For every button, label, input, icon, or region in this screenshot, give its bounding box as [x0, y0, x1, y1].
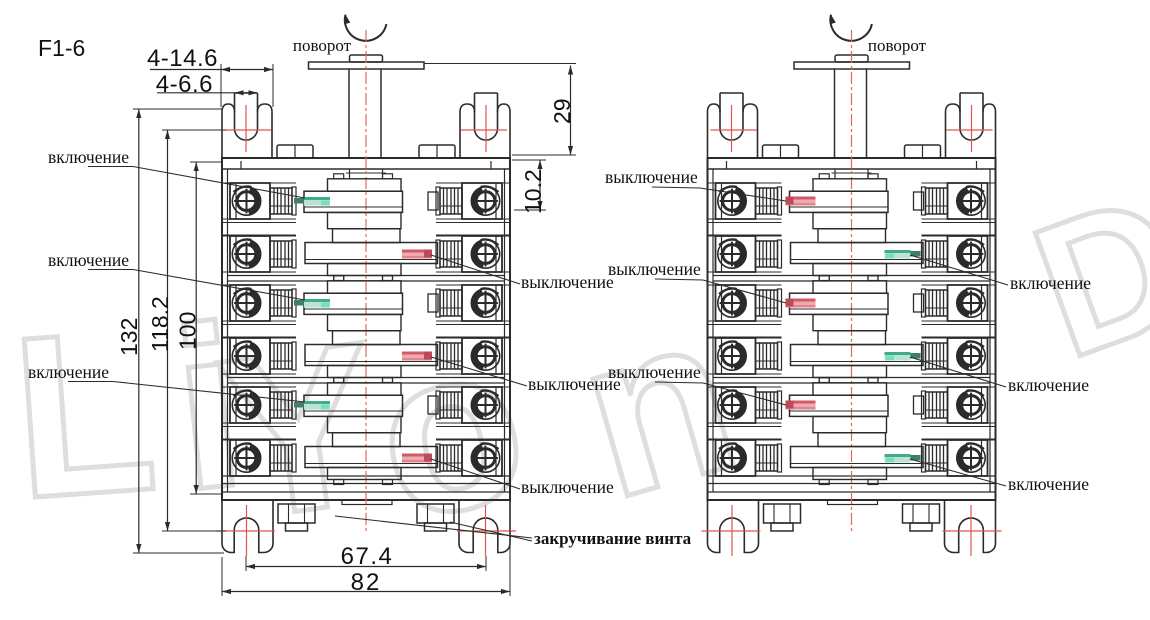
ear slot right — [497, 93, 499, 129]
contact stub row 1 — [914, 192, 924, 210]
svg-text:4-6.6: 4-6.6 — [156, 71, 213, 98]
red mark row 6 — [402, 454, 432, 463]
cam module 2 upper block — [328, 281, 402, 294]
body top plate line — [708, 168, 996, 170]
red mark row 4 — [402, 352, 432, 361]
fixed contact row y=254 R — [922, 240, 926, 268]
ear slot left — [234, 93, 236, 129]
cam module 2 upper block — [813, 281, 887, 294]
clamp row y=303 L — [270, 290, 292, 316]
handle plate — [794, 62, 910, 69]
cam module 3 lower block — [813, 468, 887, 480]
terminal block at xL row y=356 — [230, 338, 270, 374]
fixed contact row y=405 R — [922, 391, 926, 419]
contact stub row 5 — [914, 396, 924, 414]
green mark row 3 — [304, 299, 330, 308]
svg-text:включение: включение — [1010, 273, 1091, 293]
fixed contact row y=254 L — [778, 240, 782, 268]
dimension 118.2 — [167, 130, 169, 531]
contact bar row 6 — [305, 447, 438, 468]
ear crosshair left — [245, 105, 247, 152]
bottom screw boss right — [903, 504, 940, 523]
clamp row y=201 R — [926, 188, 948, 214]
clamp row y=201 L — [270, 188, 292, 214]
svg-text:включение: включение — [48, 147, 129, 167]
cam module 3 lower block — [328, 468, 402, 480]
pointer line vykliuchenie right-device 1 — [652, 187, 700, 188]
svg-text:29: 29 — [549, 98, 575, 124]
svg-text:включение: включение — [48, 250, 129, 270]
fixed contact row y=303 L — [778, 289, 782, 317]
cam module 1 upper block — [813, 179, 887, 192]
body top plate line — [222, 168, 510, 170]
contact stub row 5 — [428, 396, 438, 414]
red mark row 5 — [786, 401, 816, 410]
terminal block at xR row y=356 — [948, 338, 988, 374]
pointer line vykliuchenie left-device 1 — [431, 255, 520, 284]
contact bar row 3 — [790, 293, 889, 314]
fixed contact row y=405 L — [778, 391, 782, 419]
mounting foot right — [945, 500, 996, 553]
svg-text:F1-6: F1-6 — [38, 35, 85, 61]
cam module 2 lower block — [813, 366, 887, 378]
cam module 1 upper block — [328, 179, 402, 192]
contact bar row 6 — [791, 447, 924, 468]
svg-text:выключение: выключение — [608, 259, 701, 279]
cam module 3 middle blocks — [813, 417, 887, 433]
fixed contact row y=458 R — [436, 444, 440, 472]
bottom middle notch — [342, 500, 392, 505]
contact bar row 5 — [304, 395, 403, 416]
dimension 67.4 — [246, 566, 486, 568]
svg-text:4-14.6: 4-14.6 — [147, 45, 218, 72]
terminal block at xL row y=458 — [716, 440, 756, 476]
dimension 29 — [570, 66, 572, 156]
svg-text:118.2: 118.2 — [147, 296, 173, 352]
mounting foot left — [708, 500, 759, 553]
clamp row y=201 R — [440, 188, 462, 214]
contact stub row 1 — [428, 192, 438, 210]
terminal block at xR row y=458 — [462, 440, 502, 476]
terminal block at xL row y=303 — [230, 285, 270, 321]
green mark row 2 — [885, 250, 911, 259]
center line — [365, 30, 367, 534]
fixed contact row y=356 L — [778, 342, 782, 370]
fixed contact row y=458 L — [778, 444, 782, 472]
fixed contact row y=356 L — [292, 342, 296, 370]
clamp row y=254 R — [440, 241, 462, 267]
clamp row y=303 R — [926, 290, 948, 316]
terminal block at xR row y=254 — [462, 236, 502, 272]
clamp row y=405 R — [926, 392, 948, 418]
green mark row 4 — [885, 352, 911, 361]
rotation arc — [345, 15, 387, 41]
contact bar row 2 — [791, 243, 924, 264]
terminal block at xL row y=201 — [230, 183, 270, 219]
fixed contact row y=405 L — [292, 391, 296, 419]
clamp row y=356 R — [926, 343, 948, 369]
fixed contact row y=458 R — [922, 444, 926, 472]
clamp row y=405 R — [440, 392, 462, 418]
contact bar row 4 — [305, 345, 438, 366]
fixed contact row y=405 R — [436, 391, 440, 419]
svg-text:закручивание винта: закручивание винта — [534, 529, 692, 548]
shaft — [348, 69, 350, 158]
svg-text:включение: включение — [1008, 375, 1089, 395]
row gap shelf lines — [222, 222, 296, 224]
terminal block at xL row y=458 — [230, 440, 270, 476]
terminal block at xL row y=201 — [716, 183, 756, 219]
clamp row y=201 L — [756, 188, 778, 214]
fixed contact row y=254 L — [292, 240, 296, 268]
fixed contact row y=356 R — [436, 342, 440, 370]
svg-text:67.4: 67.4 — [341, 543, 394, 570]
pointer line vkliuchenie right-device 1 — [910, 255, 1008, 285]
clamp row y=254 R — [926, 241, 948, 267]
cam module 3 middle blocks — [328, 417, 402, 433]
green mark row 5 — [304, 401, 330, 410]
red mark row 3 — [786, 299, 816, 308]
mounting ear left — [222, 104, 235, 158]
pointer lines zakruchivanie vinta — [335, 516, 532, 538]
cam module 2 lower block — [328, 366, 402, 378]
red mark row 1 — [786, 197, 816, 206]
handle boss — [835, 55, 868, 62]
clamp row y=458 R — [926, 445, 948, 471]
clamp row y=458 R — [440, 445, 462, 471]
ear crosshair right — [485, 105, 487, 152]
svg-text:выключение: выключение — [608, 362, 701, 382]
foot crosshair right — [970, 505, 972, 556]
terminal block at xR row y=303 — [462, 285, 502, 321]
clamp row y=356 L — [756, 343, 778, 369]
fixed contact row y=303 L — [292, 289, 296, 317]
pointer line vkliuchenie right-device 2 — [910, 357, 1006, 387]
mounting ear right — [983, 104, 996, 158]
contact bar row 5 — [790, 395, 889, 416]
fixed contact row y=254 R — [436, 240, 440, 268]
clamp row y=356 L — [270, 343, 292, 369]
mounting ear right — [498, 104, 511, 158]
terminal block at xR row y=356 — [462, 338, 502, 374]
pointer line vykliuchenie left-device 3 — [431, 459, 520, 489]
svg-text:поворот: поворот — [868, 36, 927, 55]
svg-text:82: 82 — [351, 569, 382, 596]
svg-text:132: 132 — [116, 318, 142, 356]
body inner walls — [712, 169, 714, 492]
pointer line vykliuchenie left-device 2 — [431, 357, 527, 386]
top tab left — [763, 145, 799, 158]
terminal block at xR row y=254 — [948, 236, 988, 272]
foot crosshair left — [246, 505, 248, 556]
clamp row y=458 L — [756, 445, 778, 471]
fixed contact row y=201 L — [778, 187, 782, 215]
row gap shelf lines — [708, 222, 782, 224]
svg-text:100: 100 — [175, 312, 201, 350]
contact bar row 4 — [791, 345, 924, 366]
contact bar row 2 — [305, 243, 438, 264]
cam module 2 middle blocks — [328, 315, 402, 331]
body inner walls — [227, 169, 229, 492]
device body outline — [708, 158, 996, 500]
svg-text:10.2: 10.2 — [520, 169, 546, 214]
terminal block at xR row y=405 — [948, 387, 988, 423]
clamp row y=254 L — [756, 241, 778, 267]
bottom screw boss left — [764, 504, 801, 523]
bottom middle notch — [828, 500, 878, 505]
contact stub row 3 — [428, 294, 438, 312]
body module separation lines — [713, 275, 990, 277]
ear slot left — [719, 93, 721, 129]
terminal block at xL row y=356 — [716, 338, 756, 374]
green mark row 1 — [304, 197, 330, 206]
cam module 1 middle blocks — [813, 213, 887, 229]
clamp row y=303 R — [440, 290, 462, 316]
terminal block at xL row y=254 — [230, 236, 270, 272]
dimension 10.2 — [539, 160, 541, 210]
svg-text:выключение: выключение — [605, 167, 698, 187]
pointer line vkliuchenie left-device 1 — [88, 166, 133, 168]
mounting ear left — [708, 104, 721, 158]
ear crosshair left — [731, 105, 733, 152]
terminal block at xL row y=405 — [230, 387, 270, 423]
pointer line vkliuchenie left-device 3 — [68, 381, 113, 383]
mounting foot right — [459, 500, 510, 553]
body module separation lines — [228, 275, 505, 277]
terminal block at xL row y=405 — [716, 387, 756, 423]
terminal block at xL row y=254 — [716, 236, 756, 272]
ear slot right — [982, 93, 984, 129]
clamp row y=458 L — [270, 445, 292, 471]
bottom screw boss right — [417, 504, 454, 523]
red mark row 2 — [402, 250, 432, 259]
fixed contact row y=201 R — [436, 187, 440, 215]
terminal block at xL row y=303 — [716, 285, 756, 321]
top tab right — [905, 145, 941, 158]
shaft — [834, 69, 836, 158]
fixed contact row y=303 R — [922, 289, 926, 317]
fixed contact row y=458 L — [292, 444, 296, 472]
pointer line vykliuchenie right-device 3 — [655, 382, 703, 383]
top tab left — [277, 145, 313, 158]
terminal block at xR row y=405 — [462, 387, 502, 423]
device body outline — [222, 158, 510, 500]
contact bar row 1 — [304, 191, 403, 212]
green mark row 6 — [885, 454, 911, 463]
svg-text:включение: включение — [28, 362, 109, 382]
svg-text:включение: включение — [1008, 474, 1089, 494]
clamp row y=254 L — [270, 241, 292, 267]
fixed contact row y=303 R — [436, 289, 440, 317]
terminal block at xR row y=201 — [462, 183, 502, 219]
clamp row y=405 L — [756, 392, 778, 418]
cam module 2 middle blocks — [813, 315, 887, 331]
svg-text:выключение: выключение — [521, 272, 614, 292]
terminal block at xR row y=303 — [948, 285, 988, 321]
pointer line vykliuchenie right-device 2 — [655, 279, 703, 280]
ear crosshair right — [971, 105, 973, 152]
clamp row y=303 L — [756, 290, 778, 316]
pointer line vkliuchenie left-device 2 — [88, 269, 133, 271]
fixed contact row y=201 L — [292, 187, 296, 215]
clamp row y=356 R — [440, 343, 462, 369]
clamp row y=405 L — [270, 392, 292, 418]
cam module 3 upper block — [813, 383, 887, 396]
fixed contact row y=201 R — [922, 187, 926, 215]
terminal block at xR row y=458 — [948, 440, 988, 476]
contact bar row 3 — [304, 293, 403, 314]
pointer line vkliuchenie right-device 3 — [910, 459, 1006, 486]
dimension 132 — [138, 109, 140, 553]
dimension 100 — [195, 162, 197, 494]
handle boss — [350, 55, 383, 62]
contact bar row 1 — [790, 191, 889, 212]
center line — [851, 30, 853, 534]
foot crosshair left — [731, 505, 733, 556]
svg-text:поворот: поворот — [293, 36, 352, 55]
handle plate — [309, 62, 425, 69]
mounting foot left — [222, 500, 273, 553]
shaft continuation into body — [834, 169, 836, 179]
terminal block at xR row y=201 — [948, 183, 988, 219]
svg-text:выключение: выключение — [521, 477, 614, 497]
shaft continuation into body — [349, 169, 351, 179]
bottom screw boss left — [278, 504, 315, 523]
dimension 82 — [222, 591, 510, 593]
foot crosshair right — [485, 505, 487, 556]
cam module 3 upper block — [328, 383, 402, 396]
cam module 1 middle blocks — [328, 213, 402, 229]
cam module 1 lower block — [813, 264, 887, 276]
top tab right — [419, 145, 455, 158]
cam module 1 lower block — [328, 264, 402, 276]
fixed contact row y=356 R — [922, 342, 926, 370]
contact stub row 3 — [914, 294, 924, 312]
rotation arc — [830, 15, 872, 41]
